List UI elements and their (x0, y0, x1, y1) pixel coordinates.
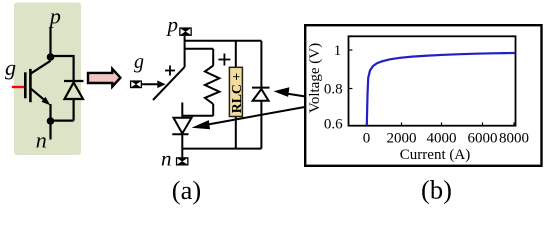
svg-text:0.6: 0.6 (324, 117, 343, 133)
svg-text:RLC +: RLC + (229, 73, 244, 114)
svg-text:6000: 6000 (468, 131, 498, 147)
svg-text:2000: 2000 (387, 131, 417, 147)
svg-text:Voltage (V): Voltage (V) (307, 43, 323, 113)
svg-text:Current (A): Current (A) (400, 147, 470, 163)
svg-text:(a): (a) (172, 175, 201, 205)
svg-text:(b): (b) (421, 174, 452, 204)
svg-text:4000: 4000 (427, 131, 457, 147)
svg-text:0.8: 0.8 (324, 82, 343, 98)
svg-text:g: g (5, 55, 16, 80)
svg-text:0: 0 (363, 131, 371, 147)
svg-text:1: 1 (334, 43, 342, 59)
svg-text:g: g (134, 51, 144, 73)
svg-text:8000: 8000 (499, 131, 529, 147)
svg-text:p: p (166, 13, 179, 37)
svg-text:n: n (36, 128, 47, 153)
svg-text:p: p (48, 3, 61, 28)
svg-text:n: n (161, 146, 172, 170)
